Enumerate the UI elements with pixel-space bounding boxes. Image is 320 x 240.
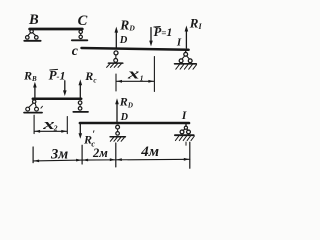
svg-text:RD: RD [119,94,133,109]
support B2 right roller [35,107,39,111]
dimension x1 left arrowhead [117,80,122,83]
dimension x1 left tick [115,74,117,91]
svg-text:C: C [78,13,88,29]
support G2 hinge circle [184,126,187,129]
overbar of P top [154,26,160,29]
main dimension tick C [81,145,83,164]
support C upper roller [79,30,82,33]
reaction arrow RB head [33,82,37,88]
support B right roller [35,36,39,40]
support G right leg [187,56,190,59]
support G left base circle [179,59,183,63]
dimension x2 left arrowhead [35,130,40,133]
reaction arrow RC shaft [79,83,81,97]
main dimension tick D [115,143,117,167]
main dimension line 2m-4m [82,158,190,161]
force R'C arrow shaft [79,124,81,134]
support G2 right base circle [187,130,191,134]
arrowhead left of D [110,158,115,161]
support B right leg [33,33,36,36]
beam c-D-G [82,48,189,50]
support C2 ground line [73,111,88,113]
support G2 lower dash [185,142,187,145]
dimension x2 left tick [33,115,35,133]
reaction arrow RD2 head [115,98,119,104]
overbar of P middle [50,68,58,71]
support G2 ground line [175,134,194,136]
support D hatching [107,64,122,68]
arrowhead at B [34,160,39,163]
support G2 stub [185,124,187,126]
support G hatching [176,65,197,70]
support G2 hatching [175,136,194,141]
dimension x1 right tick [153,57,155,92]
support C link [80,34,82,36]
reaction arrow RD2 shaft [116,103,118,122]
support D2 link [117,129,119,131]
support D2 upper roller [116,125,120,129]
svg-text:B: B [28,12,39,28]
dimension x1 line [117,80,154,82]
support D2 ground line [110,136,125,138]
support B2 right leg [35,103,36,107]
arrowhead left of C [76,159,81,162]
support G2 left leg [183,129,185,131]
svg-text:I: I [176,37,182,49]
support B2 left roller [26,107,30,111]
load P=1 arrow head [149,41,153,47]
support D2 lower roller [116,132,120,136]
reaction arrow RD shaft [115,31,117,47]
reaction arrow RB shaft [34,86,36,98]
beam C-D-G bottom [80,122,189,125]
support C ground line [72,39,87,41]
support D link [115,55,117,58]
support C2 upper roller [78,101,82,105]
dimension x2 right tick [66,117,68,134]
support C2 lower roller [78,107,82,111]
support D2 hatching [110,138,124,142]
load P=1 middle arrow shaft [64,81,66,92]
support B2 ground line [24,112,42,114]
arrowhead right of D [116,158,121,161]
load P=1 middle arrow head [63,90,67,96]
main dimension line 3m [33,159,82,162]
reaction arrow RG head [185,26,189,32]
support G2 right leg [187,129,188,131]
svg-text:2: 2 [53,123,58,132]
support B2 left leg [29,103,34,108]
svg-text:D: D [119,35,128,46]
support G ground line [175,63,197,65]
arrowhead at G [184,158,189,161]
beam B-C [30,28,83,31]
support C lower roller [79,35,82,38]
svg-text:1: 1 [140,74,144,83]
support D ground line [108,62,122,64]
support C2 link [79,105,81,107]
beam B-C second [33,97,81,100]
support D lower roller [114,59,118,63]
svg-text:x: x [127,66,140,82]
svg-text:2м: 2м [92,146,108,160]
main dimension tick B [32,147,34,163]
svg-text:3м: 3м [50,147,68,163]
svg-text:c: c [72,44,79,59]
svg-text:RI: RI [189,15,202,30]
reaction arrow RD head [115,27,119,33]
dimension x2 right arrowhead [61,130,66,133]
svg-text:Rc: Rc [84,69,96,85]
main dimension tick G [189,142,191,168]
support B ground line [24,40,40,42]
svg-text:4м: 4м [140,144,159,160]
svg-text:RB: RB [23,68,37,82]
support G hinge circle [184,52,188,56]
support B left roller [26,36,30,40]
reaction arrow RC head [79,79,83,85]
arrowhead right of C [83,159,88,162]
dimension x2 line [35,130,67,132]
support B left leg [28,33,31,36]
svg-text:D: D [120,112,128,123]
support G left leg [182,56,185,59]
force R'C arrow head [79,133,83,139]
svg-text:RD: RD [119,18,135,33]
support G right base circle [188,59,192,63]
dimension x1 right arrowhead [148,80,153,83]
support G stub [185,51,187,53]
load P=1 arrow shaft [150,28,152,42]
support B hinge circle [30,30,33,33]
support B2 stray tick [41,106,43,108]
svg-text:I: I [181,110,187,122]
support D upper roller [114,51,118,55]
support B2 hinge circle [33,100,36,103]
support G2 left base circle [180,130,184,134]
reaction arrow RG shaft [185,30,187,48]
